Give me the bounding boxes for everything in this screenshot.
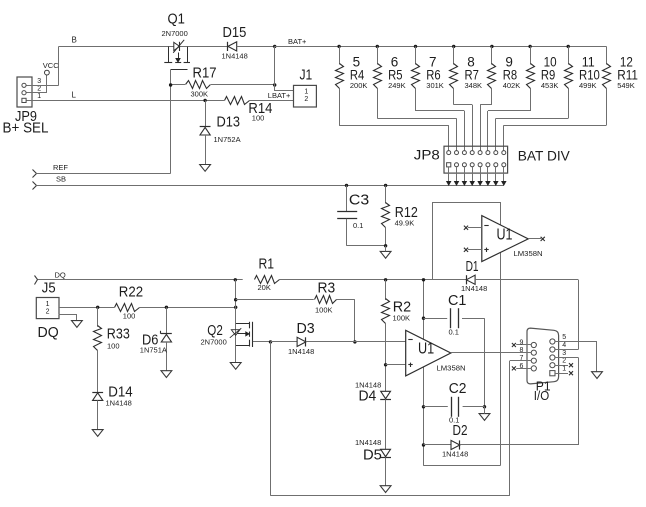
svg-text:9: 9 [519, 339, 523, 346]
svg-text:LBAT+: LBAT+ [268, 91, 291, 100]
svg-text:LM358N: LM358N [514, 249, 543, 258]
svg-text:0.1: 0.1 [353, 221, 363, 230]
svg-text:U1: U1 [497, 226, 513, 243]
svg-text:I/O: I/O [534, 389, 550, 403]
svg-text:3: 3 [562, 350, 566, 357]
svg-text:0.1: 0.1 [449, 328, 459, 337]
svg-text:Q1: Q1 [168, 12, 185, 28]
svg-text:BAT DIV: BAT DIV [518, 148, 571, 164]
svg-text:3: 3 [37, 78, 41, 85]
svg-text:2: 2 [304, 96, 308, 103]
svg-text:C3: C3 [349, 193, 369, 209]
svg-text:200K: 200K [350, 81, 368, 90]
svg-text:1N4148: 1N4148 [355, 438, 381, 447]
svg-text:49.9K: 49.9K [395, 219, 415, 228]
svg-text:D5: D5 [363, 448, 382, 464]
svg-text:D15: D15 [223, 25, 247, 41]
svg-text:453K: 453K [541, 81, 559, 90]
svg-text:1N4148: 1N4148 [222, 52, 248, 61]
svg-text:R17: R17 [193, 66, 217, 82]
svg-text:1N4148: 1N4148 [442, 450, 468, 459]
svg-text:300K: 300K [191, 90, 209, 99]
svg-text:SB: SB [56, 175, 66, 184]
svg-text:U1: U1 [418, 341, 434, 358]
svg-text:R33: R33 [107, 327, 130, 343]
svg-text:5: 5 [562, 334, 566, 341]
svg-text:R22: R22 [119, 285, 143, 301]
svg-text:499K: 499K [579, 81, 597, 90]
svg-text:D1: D1 [466, 259, 479, 275]
svg-text:VCC: VCC [43, 61, 59, 70]
svg-text:1: 1 [304, 89, 308, 96]
svg-text:D4: D4 [359, 389, 377, 405]
svg-text:D2: D2 [453, 423, 468, 439]
svg-text:20K: 20K [258, 283, 271, 292]
svg-text:1N4148: 1N4148 [288, 347, 314, 356]
svg-text:D3: D3 [297, 321, 315, 337]
svg-text:100: 100 [107, 342, 120, 351]
svg-text:DQ: DQ [38, 325, 59, 341]
svg-text:C2: C2 [449, 381, 467, 397]
svg-text:DQ: DQ [55, 271, 66, 280]
svg-text:7: 7 [519, 355, 523, 362]
svg-text:1N751A: 1N751A [140, 346, 167, 355]
svg-text:1: 1 [46, 301, 50, 308]
svg-text:2N7000: 2N7000 [201, 338, 227, 347]
svg-text:249K: 249K [388, 81, 406, 90]
svg-text:2: 2 [562, 358, 566, 365]
svg-text:2: 2 [37, 85, 41, 92]
svg-text:BAT+: BAT+ [288, 37, 307, 46]
svg-text:100: 100 [252, 114, 265, 123]
svg-text:C1: C1 [448, 293, 466, 309]
svg-text:B+ SEL: B+ SEL [3, 121, 49, 137]
svg-text:6: 6 [519, 363, 523, 370]
svg-text:1N4148: 1N4148 [106, 399, 132, 408]
svg-text:100K: 100K [315, 306, 333, 315]
svg-text:100: 100 [123, 312, 136, 321]
svg-text:100K: 100K [393, 314, 411, 323]
svg-text:301K: 301K [426, 81, 444, 90]
svg-text:1N752A: 1N752A [214, 135, 241, 144]
svg-text:REF: REF [53, 163, 68, 172]
svg-text:2: 2 [46, 309, 50, 316]
svg-text:R1: R1 [259, 257, 275, 273]
svg-text:2N7000: 2N7000 [162, 29, 188, 38]
svg-text:JP8: JP8 [414, 147, 440, 163]
svg-text:1N4148: 1N4148 [461, 284, 487, 293]
svg-text:LM358N: LM358N [437, 364, 466, 373]
svg-text:4: 4 [562, 342, 566, 349]
svg-text:1: 1 [562, 366, 566, 373]
svg-text:549K: 549K [617, 81, 635, 90]
svg-text:D13: D13 [217, 115, 241, 131]
svg-text:J1: J1 [300, 68, 313, 84]
svg-text:J5: J5 [42, 281, 56, 297]
svg-text:8: 8 [519, 347, 523, 354]
svg-text:348K: 348K [465, 81, 483, 90]
svg-text:1: 1 [37, 93, 41, 100]
svg-text:B: B [72, 36, 77, 45]
svg-text:L: L [72, 91, 77, 100]
svg-text:R3: R3 [318, 281, 336, 297]
svg-text:402K: 402K [503, 81, 521, 90]
